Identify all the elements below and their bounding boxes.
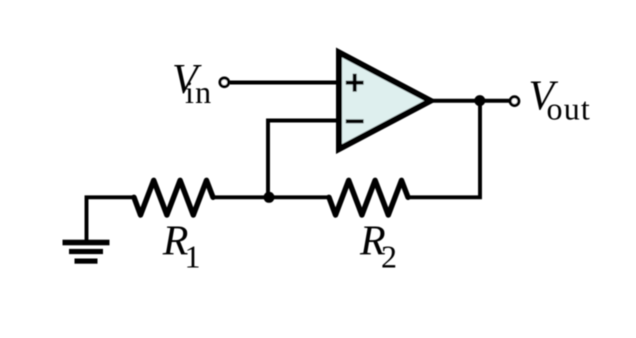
- label Vout: [529, 74, 592, 127]
- wire R1 to node A: [213, 195, 269, 199]
- ground symbol: [63, 240, 110, 264]
- wire inverting input to feedback node: [268, 121, 346, 198]
- svg-text:1: 1: [185, 238, 201, 274]
- op-amp plus input symbol: [346, 74, 364, 92]
- op-amp minus input symbol: [346, 119, 364, 123]
- wire Vin terminal to noninverting input: [230, 81, 346, 85]
- wire node A to R2: [269, 195, 329, 199]
- svg-text:in: in: [185, 74, 212, 110]
- svg-text:2: 2: [381, 238, 397, 274]
- resistor R1 zigzag: [134, 180, 213, 215]
- wire ground to R1: [87, 197, 135, 241]
- op-amp U1 triangle: [339, 53, 431, 150]
- label R2: [359, 219, 397, 275]
- svg-text:out: out: [547, 91, 592, 127]
- wire R2 to output node: [408, 101, 480, 198]
- label Vin: [172, 57, 212, 110]
- Vin open terminal: [220, 78, 229, 87]
- label R1: [162, 219, 201, 275]
- node A junction dot: [264, 192, 275, 203]
- resistor R2 zigzag: [329, 180, 408, 215]
- Vout open terminal: [510, 97, 519, 106]
- wire op-amp output to Vout terminal: [429, 99, 509, 103]
- output node junction dot: [474, 95, 485, 106]
